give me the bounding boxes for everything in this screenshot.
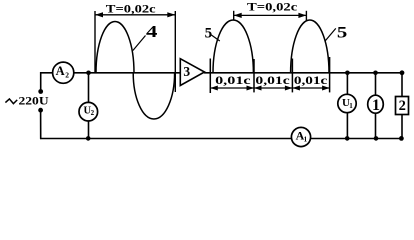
label 5 right leader line: [325, 28, 336, 41]
svg-text:2: 2: [399, 98, 406, 114]
rectified section boundary line 1: [209, 59, 211, 94]
voltmeter U1: [338, 94, 356, 112]
waveform 5 hump 2: [291, 20, 329, 73]
dimension T=0,02c (rectified) right tick: [305, 11, 307, 21]
svg-text:A: A: [56, 64, 65, 78]
dimension T=0,02c (rectified) line with arrows: [234, 13, 307, 18]
wire top rail right segment: [205, 72, 403, 74]
svg-text:5: 5: [205, 26, 213, 42]
ammeter A1: [291, 127, 310, 146]
rectified section boundary line 3: [291, 59, 293, 93]
wire source upper terminal: [40, 73, 42, 92]
wire block2 branch lower: [401, 115, 403, 139]
label 5 left leader line: [211, 35, 220, 41]
dimension 0,01c cell 2 line with arrows: [254, 86, 292, 91]
block 1 circle: [368, 95, 384, 113]
dimension T=0,02c (input sine) line with arrows: [95, 12, 175, 17]
svg-text:0,01c: 0,01c: [255, 73, 290, 87]
waveform 5 hump 1: [213, 20, 253, 73]
svg-text:1: 1: [372, 97, 380, 114]
node junction top wire to V1: [345, 71, 350, 76]
voltmeter U2: [79, 102, 98, 121]
dimension 0,01c cell 1 line with arrows: [210, 86, 254, 91]
label 4 leader line: [133, 36, 146, 51]
wire U2 branch lower: [88, 121, 90, 139]
block 2 rectangle: [396, 97, 409, 115]
svg-text:0,01c: 0,01c: [294, 73, 328, 87]
rectified section boundary line 2: [253, 59, 255, 92]
svg-text:T=0,02c: T=0,02c: [106, 1, 156, 15]
ammeter A2: [53, 62, 74, 83]
wire block1 branch upper: [375, 73, 377, 96]
wire source lower terminal: [40, 110, 42, 138]
node source upper terminal dot: [38, 89, 43, 94]
svg-text:4: 4: [146, 22, 157, 41]
rectified section boundary line 4: [329, 57, 331, 92]
node source lower terminal dot: [38, 108, 43, 113]
wire top rail left segment: [41, 72, 53, 74]
dimension T=0,02c (input sine) left extension line: [94, 11, 96, 73]
wire block1 branch lower: [375, 113, 377, 138]
wire V1 branch upper: [346, 73, 348, 95]
dimension 0,01c cell 3 line with arrows: [292, 86, 329, 91]
svg-text:5: 5: [337, 25, 347, 42]
converter block 3 triangle: [180, 59, 204, 86]
wire bottom rail left segment: [41, 138, 292, 140]
wire top rail middle segment: [74, 72, 181, 74]
svg-text:1: 1: [304, 135, 308, 143]
svg-text:2: 2: [91, 109, 95, 117]
svg-text:2: 2: [65, 71, 69, 80]
node junction bottom wire to block 2 (end): [399, 136, 404, 141]
waveform 4 sine curve negative lobe: [133, 73, 174, 119]
node junction top wire to U2: [86, 71, 91, 76]
node junction bottom wire to U2: [86, 136, 91, 141]
svg-text:220U: 220U: [19, 94, 49, 108]
AC source wave symbol: [5, 99, 17, 104]
svg-text:1: 1: [349, 102, 353, 110]
node junction top wire to block 2 (end): [400, 70, 405, 75]
wire block2 branch upper: [401, 73, 403, 97]
svg-text:3: 3: [183, 64, 190, 79]
wire V1 branch lower: [346, 112, 348, 138]
node junction bottom wire to V1: [345, 136, 350, 141]
node junction bottom wire to block 1: [374, 136, 379, 141]
dimension T=0,02c (rectified) left tick: [233, 11, 235, 21]
waveform 4 sine curve positive lobe: [96, 22, 134, 73]
node junction top wire to block 1: [373, 71, 378, 76]
svg-text:0,01c: 0,01c: [215, 73, 251, 87]
wire U2 branch upper: [88, 73, 90, 103]
dimension T=0,02c (input sine) right extension line: [174, 11, 176, 92]
svg-text:T=0,02c: T=0,02c: [247, 0, 297, 13]
wire bottom rail right segment: [310, 138, 402, 140]
